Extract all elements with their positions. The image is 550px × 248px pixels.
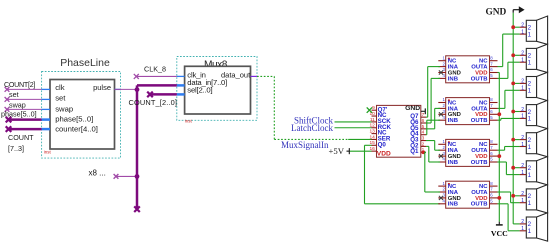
svg-text:clk: clk [55,83,65,92]
svg-text:COUNT_[2..0]: COUNT_[2..0] [129,98,178,107]
svg-text:1: 1 [521,29,524,35]
svg-text:7: 7 [422,112,425,118]
svg-text:2: 2 [521,79,524,85]
svg-text:14: 14 [369,134,375,140]
svg-text:1: 1 [521,198,524,204]
svg-text:swap: swap [9,101,26,110]
svg-text:5: 5 [422,124,425,130]
svg-text:1: 1 [528,228,532,235]
svg-text:1: 1 [528,116,532,123]
svg-text:OUTB: OUTB [471,202,488,208]
svg-text:1: 1 [521,114,524,120]
svg-text:pulse: pulse [93,83,111,92]
svg-text:inst: inst [185,119,193,124]
svg-text:VCC: VCC [491,229,508,238]
svg-text:Q1: Q1 [410,148,419,155]
svg-text:9: 9 [372,105,375,111]
svg-text:6: 6 [422,118,425,124]
svg-text:2: 2 [521,191,524,197]
svg-text:PhaseLine: PhaseLine [60,57,110,69]
svg-text:2: 2 [422,141,425,147]
svg-text:2: 2 [521,135,524,141]
svg-text:3: 3 [422,135,425,141]
svg-text:1: 1 [528,60,532,67]
svg-text:OUTB: OUTB [471,76,488,82]
svg-text:4: 4 [422,130,425,136]
svg-text:[7..3]: [7..3] [8,144,24,153]
svg-text:2: 2 [521,163,524,169]
svg-text:INB: INB [448,76,458,82]
svg-text:1: 1 [521,86,524,92]
svg-text:1: 1 [528,200,532,207]
svg-text:LatchClock: LatchClock [291,123,333,133]
svg-text:swap: swap [55,104,73,113]
svg-text:set: set [55,93,66,102]
svg-text:1: 1 [521,58,524,64]
svg-text:INB: INB [448,202,458,208]
svg-text:sel[2..0]: sel[2..0] [187,85,212,94]
svg-text:GND: GND [485,8,506,18]
svg-text:1: 1 [521,170,524,176]
svg-text:INB: INB [448,118,458,124]
svg-text:2: 2 [521,219,524,225]
svg-text:inst: inst [44,150,52,155]
svg-text:1: 1 [528,31,532,38]
svg-text:OUTB: OUTB [471,160,488,166]
svg-text:MuxSignalIn: MuxSignalIn [281,140,329,150]
svg-text:2: 2 [521,107,524,113]
svg-text:Q0: Q0 [378,141,387,148]
svg-text:phase[5..0]: phase[5..0] [1,110,37,119]
svg-text:COUNT: COUNT [8,133,34,142]
svg-text:counter[4..0]: counter[4..0] [55,124,98,133]
svg-text:1: 1 [521,226,524,232]
svg-text:+5V: +5V [328,146,344,156]
svg-text:set: set [9,90,19,99]
svg-text:1: 1 [528,88,532,95]
svg-text:GND: GND [405,105,420,112]
svg-text:x8 ...: x8 ... [89,168,106,177]
svg-text:COUNT[2]: COUNT[2] [4,81,35,89]
svg-text:CLK_8: CLK_8 [144,65,166,74]
svg-text:OUTB: OUTB [471,118,488,124]
svg-text:INB: INB [448,160,458,166]
svg-text:1: 1 [528,144,532,151]
svg-text:13: 13 [369,129,375,135]
svg-text:data_out: data_out [221,70,251,79]
svg-text:1: 1 [521,142,524,148]
svg-text:phase[5..0]: phase[5..0] [55,114,93,123]
svg-text:2: 2 [521,23,524,29]
svg-text:1: 1 [528,172,532,179]
svg-text:VDD: VDD [377,151,391,158]
svg-text:2: 2 [521,51,524,57]
